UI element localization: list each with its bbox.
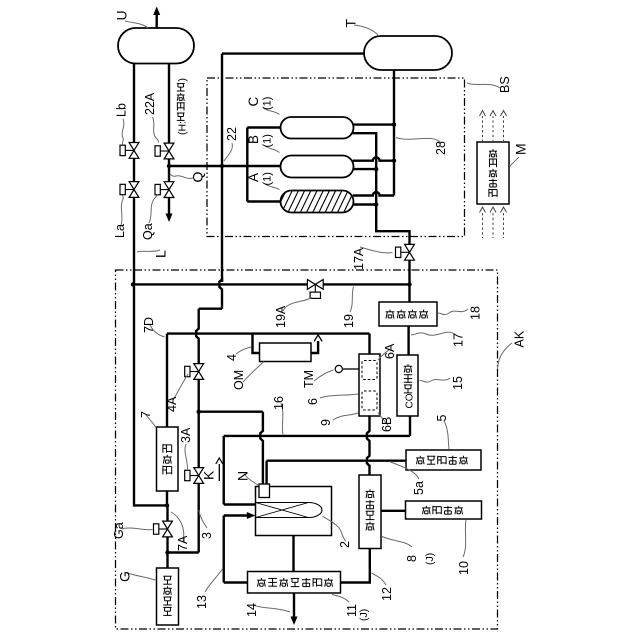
water mixer 8 box [359,475,381,549]
leader C1 [263,108,280,115]
svg-text:Lb: Lb [115,103,129,117]
label La [113,224,127,238]
leader 8J [382,537,412,548]
wire evaporator outlet arrow [291,593,298,625]
leader A1 [265,184,280,190]
wire 7D vertical to compressor [166,334,168,427]
wire CO converter bottom stub [409,416,411,436]
valve 19A [307,280,323,299]
leader M [510,157,520,167]
label U [114,10,130,20]
label 8 [405,555,419,562]
wire between valves 4A and 3A [197,379,199,467]
leader Qa [149,195,158,224]
wire L pipe mid (Lb to La) [133,158,135,181]
svg-text:7D: 7D [142,317,156,333]
label OM [232,370,246,390]
leader 6 [320,394,358,398]
svg-text:13: 13 [195,595,209,609]
water supply 10 box [406,501,482,519]
leader 19 [350,287,354,313]
label 12 [380,587,394,601]
label 22A [143,92,157,115]
controller M dashed arrows below [480,207,507,238]
valve 3A [185,468,204,484]
label Q [190,172,206,183]
svg-text:14: 14 [245,603,259,617]
svg-text:L: L [153,250,169,258]
label 6B [380,417,394,432]
svg-text:3: 3 [200,532,214,539]
svg-text:(1): (1) [262,97,274,110]
wire water mixer to water supply [381,510,406,512]
label 15 [451,376,465,390]
svg-text:OM: OM [232,370,246,390]
leader 14 [253,605,290,612]
wire left bus of adsorbers [246,128,248,202]
wire bus drop to desulfurizer 6 [368,334,370,354]
leader Lb [122,119,124,145]
label 5a [412,481,426,495]
wire valve 7A line lower [166,537,168,568]
svg-text:T: T [343,19,359,28]
junction line 3 [165,550,169,554]
svg-text:CO: CO [405,393,416,408]
leader 12 [372,573,387,585]
junction off-gas branch [197,410,201,414]
valve 4A [185,364,204,380]
boundary box AK (dash-dot) [116,270,498,629]
leader 4A [173,374,188,400]
wire line 13 vertical [223,516,225,583]
wire line 16 into reformer [224,503,256,505]
svg-text:7A: 7A [176,535,190,551]
label M [513,143,529,155]
wire adsorber A upper port (hops bus 2) [353,192,394,195]
wire line 16 vertical [223,436,225,505]
label 9 [319,419,333,426]
valve 7A [154,521,173,537]
leader 6B [378,413,388,426]
wire bus from compressor (7D line horizontal) [167,332,370,334]
svg-text:2: 2 [338,541,352,548]
svg-text:M: M [513,143,529,155]
svg-text:(J): (J) [424,553,436,565]
label A [246,173,261,182]
wire below valve 3A [197,483,199,552]
wire line 13 to evaporator [224,581,248,583]
wire line 19 [133,283,410,285]
svg-text:B: B [246,135,261,144]
junction compressor bottom [165,503,169,507]
wire line 22 jog over line 19 [219,279,222,308]
evaporator heat exchanger 11 box [248,572,341,594]
label Lb [115,103,129,117]
svg-text:19: 19 [342,314,356,328]
valve La [120,182,139,198]
svg-text:6A: 6A [383,343,397,359]
svg-text:17: 17 [452,333,466,347]
fuel gas source G box [157,568,179,625]
label 6A [383,343,397,359]
junction line22 x main [220,164,224,168]
wire TM sensor stub [343,368,359,370]
svg-text:11: 11 [345,604,359,617]
leader L [137,250,160,252]
valve 17A [396,244,415,260]
svg-text:8: 8 [405,555,419,562]
adsorber A (hatched) [256,188,387,215]
label 13 [195,595,209,609]
svg-text:6B: 6B [380,417,394,432]
label 3A [179,427,193,443]
wire top line to tank T [222,52,365,54]
label K [201,470,217,480]
wire line 12 from water mixer [341,549,370,583]
leader B1 [265,146,280,153]
svg-text:22A: 22A [143,92,157,115]
label B (1) [262,134,274,147]
label 14 [245,603,259,617]
label 6 [306,398,320,405]
svg-text:Qa: Qa [141,223,155,240]
wire valve 7A line upper [166,505,168,521]
leader 22 [224,143,232,161]
label Qa [141,223,155,240]
svg-text:Ga: Ga [112,522,126,539]
label A (1) [262,172,274,185]
leader Ga [122,528,153,530]
wire off-gas branch to burner [199,411,263,413]
svg-text:10: 10 [457,561,471,575]
leader AK [498,343,513,369]
svg-text:4: 4 [225,354,239,361]
wire water separator to CO converter [407,326,409,355]
leader 2 [323,516,347,541]
junction on product pipe [167,164,171,168]
adsorber C [281,117,354,139]
label 18 [469,306,483,320]
svg-text:Q: Q [190,172,206,183]
svg-text:19A: 19A [274,305,288,328]
leader TM [314,370,334,381]
svg-text:15: 15 [451,376,465,390]
svg-text:7: 7 [139,411,153,418]
air supply 5 box [406,450,481,470]
svg-text:TM: TM [302,370,316,388]
label 7D [142,317,156,333]
tank T [364,36,452,70]
label J upper [424,553,436,565]
svg-text:18: 18 [469,306,483,320]
label 19 [342,314,356,328]
leader 7D [150,325,165,337]
leader 5 [444,421,449,450]
leader T [354,25,378,35]
junction B lower [374,167,378,171]
leader 3 [199,510,207,528]
svg-text:K: K [201,470,217,480]
label 16 [272,396,286,410]
label TM [302,370,316,388]
svg-text:AK: AK [513,330,527,347]
CO converter 15 box [397,355,418,416]
boundary box BS (dash-dot) [207,78,465,237]
svg-text:N: N [235,471,251,481]
svg-text:5a: 5a [412,481,426,495]
wire line 16 horizontal [224,435,410,437]
wire L pipe upper (tank U to valve Lb) [133,63,135,143]
reformer catalyst tube [256,503,323,518]
label H product gas note [177,78,189,135]
heater 4 box (OM) [260,343,312,362]
label BS [498,76,512,93]
wire compressor outlet bottom [166,491,168,505]
wire main line to adsorbers [169,165,281,167]
label 11 [345,604,359,617]
junction line19 x 17A line [407,282,411,286]
valve Qa [155,182,174,198]
svg-text:G: G [117,571,133,582]
wire line 22 vertical [221,54,223,282]
desulfurizer 6 box [359,354,380,416]
wire tank T bottom / right bus 1 [393,70,395,196]
leader 10 [463,520,466,557]
svg-text:(1): (1) [262,172,274,185]
wire product pipe upper (tank U to valve 22A) [168,63,170,143]
leader N [244,474,258,485]
sensor TM circle [335,365,342,372]
leader U [125,21,148,28]
svg-text:16: 16 [272,396,286,410]
svg-text:(J): (J) [358,609,370,621]
wire off-gas drop to valve 4A [196,309,199,364]
label 10 [457,561,471,575]
burner nozzle N [259,484,270,498]
leader 4 [236,347,252,354]
leader 17 [411,332,455,335]
svg-text:4A: 4A [165,396,179,412]
label 22 [225,127,239,141]
label C [246,97,261,107]
label 7 [139,411,153,418]
label 17A [352,247,366,270]
leader La [121,195,123,225]
wire desulfurizer 6 to water mixer (jogs lines 16 and 5a) [367,416,370,475]
wire line 13 into reformer with arrow [224,512,256,519]
label T [343,19,359,28]
label Ga [112,522,126,539]
wire heater 4 right stub with arrow [311,335,322,353]
leader 22A [153,117,159,143]
label B [246,135,261,144]
svg-text:U: U [114,10,130,20]
wire L pipe bottom horizontal [133,504,167,506]
leader 7A [171,512,184,542]
leader G [128,573,156,580]
wire line 3 horizontal [168,551,199,553]
junction A lower [374,202,378,206]
leader 3A [185,444,188,470]
wire reformer bottom to evaporator [292,536,294,572]
label J lower [358,609,370,621]
svg-text:A: A [246,173,261,182]
label 4 [225,354,239,361]
label C (1) [262,97,274,110]
label 17 [452,333,466,347]
wire Q arrow out [166,197,173,222]
label 3 [200,532,214,539]
leader 6A [378,349,390,360]
label 4A [165,396,179,412]
svg-text:9: 9 [319,419,333,426]
leader OM [243,362,264,383]
leader Q [170,174,194,178]
wire line 22 step left [199,308,222,310]
svg-text:12: 12 [380,587,394,601]
wire heater 4 left stub [253,334,260,353]
wire L pipe lower (La down to junction) [133,197,135,506]
junction B upper [392,159,396,163]
svg-text:17A: 17A [352,247,366,270]
water separator 18 box [379,302,437,326]
label 19A [274,305,288,328]
label 2 [338,541,352,548]
wire product pipe mid (22A to junction Q) [168,159,170,182]
label L [153,250,169,258]
leader 11J [332,595,349,603]
leader 16 [281,403,283,435]
label 5 [435,415,449,422]
leader 18 [438,309,468,315]
wire adsorber C lower port to bus 2 [353,133,410,244]
wire valve 17A to water separator [408,260,410,302]
label 7A [176,535,190,551]
desulfurizer catalyst 6A (dashed) [362,361,377,380]
wire adsorber A lower port [353,203,376,205]
svg-text:): ) [177,78,189,82]
label 28 [434,141,448,155]
controller M box [477,142,509,204]
leader 17A [360,247,393,253]
valve 22A [155,143,174,159]
junction L pipe x line19 [131,282,135,286]
svg-text:(H:: (H: [177,121,189,135]
wire stub to adsorber A left [247,200,280,202]
tank U [118,28,194,64]
reformer 2 box [256,487,332,536]
junction C upper [392,122,396,126]
leader 28 [396,138,441,144]
label N [235,471,251,481]
label G [117,571,133,582]
leader 7 [146,415,156,428]
leader BS [467,83,500,88]
valve Lb [120,143,139,159]
svg-text:22: 22 [225,127,239,141]
wire stub to adsorber C left [247,126,280,128]
leader 5a [390,462,420,480]
wire line 5a air line [267,460,406,462]
leader 19A [283,298,312,312]
svg-text:28: 28 [434,141,448,155]
desulfurizer catalyst 6B (dashed) [362,391,377,410]
wire adsorber C upper port [353,123,394,125]
svg-text:5: 5 [435,415,449,422]
label AK [513,330,527,347]
leader 15 [420,378,451,382]
svg-text:C: C [246,97,261,107]
leader 13 [205,569,223,592]
wire line 5a drop to burner N [265,461,267,485]
svg-text:3A: 3A [179,427,193,443]
svg-text:BS: BS [498,76,512,93]
wire adsorber B upper port (hops bus 2) [353,157,394,160]
leader 9 [333,413,358,420]
svg-text:La: La [113,224,127,238]
svg-text:(1): (1) [262,134,274,147]
wire off-gas branch vertical (jogs line 16) [260,412,263,484]
wire K flow arrow [216,458,223,481]
svg-text:6: 6 [306,398,320,405]
adsorber B [281,156,354,178]
controller M dashed arrows above [480,111,507,143]
compressor 7 box [157,427,179,491]
wire adsorber B lower port [353,168,376,170]
wire U arrow out [153,7,160,28]
